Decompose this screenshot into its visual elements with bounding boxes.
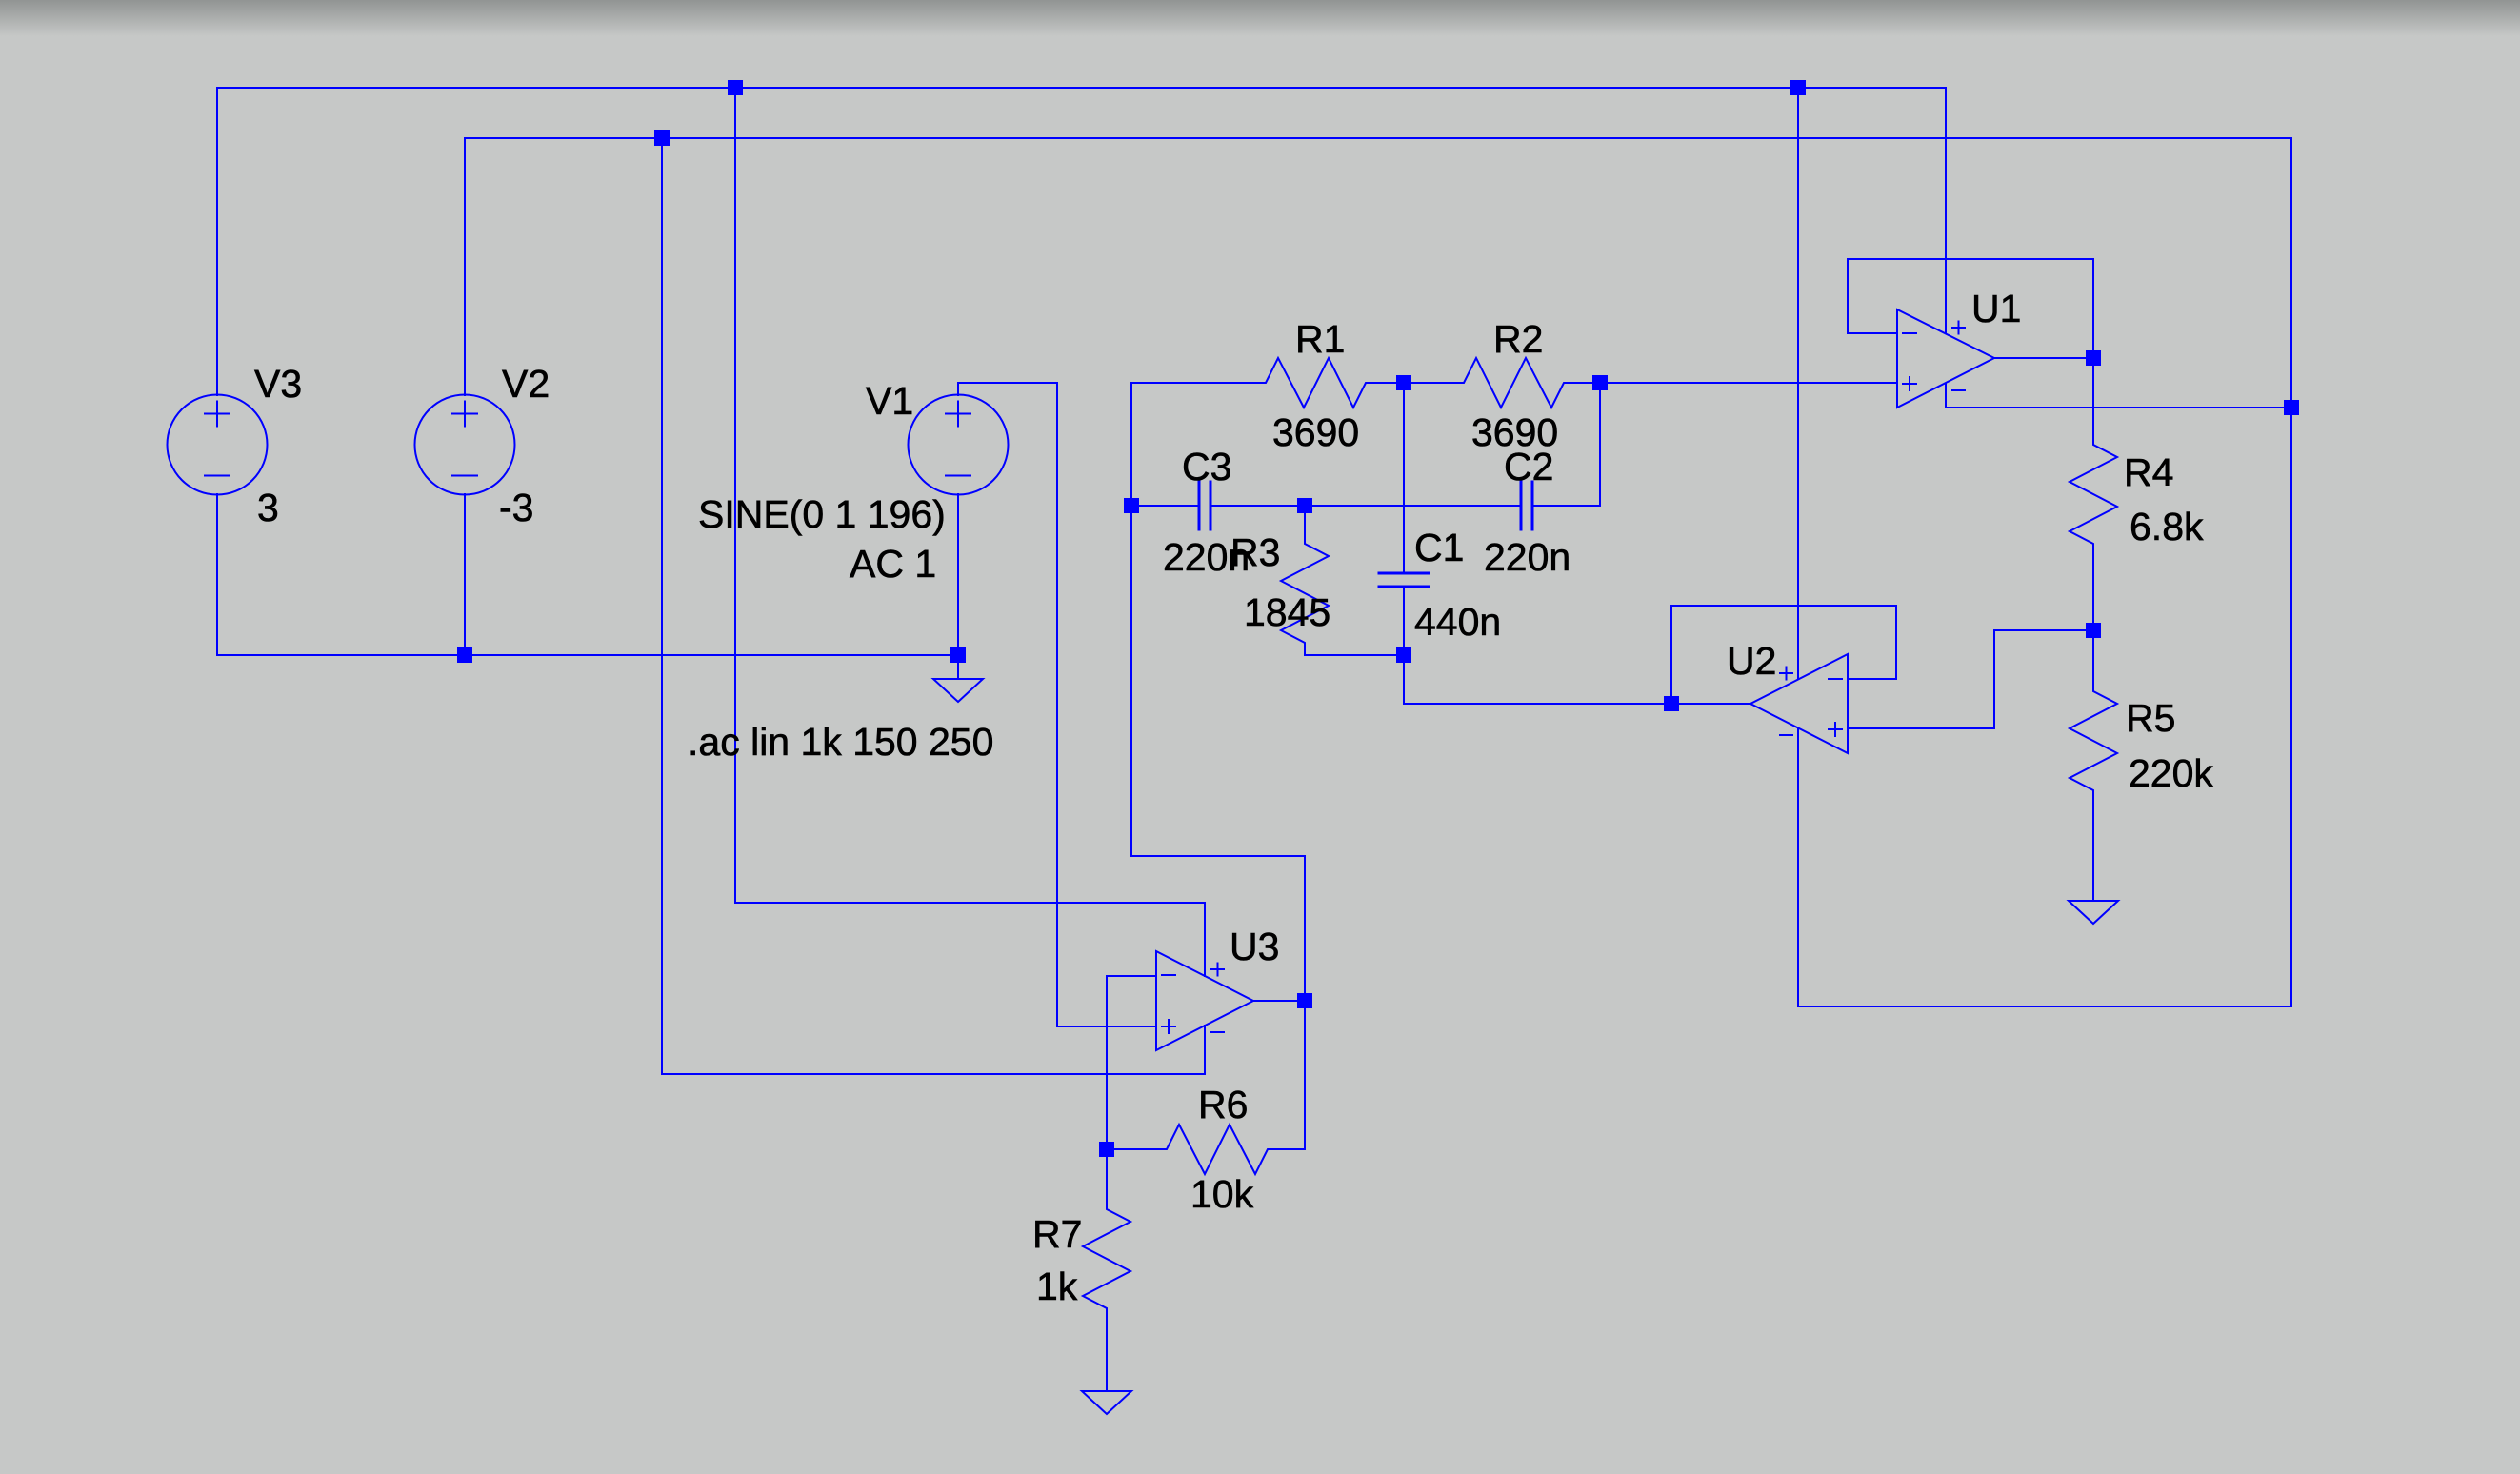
resistor R7 1k vertical xyxy=(1083,1149,1130,1391)
svg-text:C3: C3 xyxy=(1182,445,1231,488)
wire U2 +3V supply pin from top rail xyxy=(1797,88,1799,679)
ground under V1 xyxy=(933,679,983,702)
V3 minus mark xyxy=(205,475,230,477)
U3 input minus mark xyxy=(1162,974,1175,976)
wire bottom rail: V3 bottom to V1 bottom xyxy=(217,494,958,655)
wire V1 output: top stub, right, long vertical, to U3 + input xyxy=(958,383,1156,1026)
svg-text:R4: R4 xyxy=(2124,450,2173,494)
svg-text:U3: U3 xyxy=(1230,925,1279,968)
svg-text:U2: U2 xyxy=(1727,639,1776,683)
resistor R3 1845 vertical xyxy=(1281,506,1329,655)
wire R2 right to U1 + input xyxy=(1600,382,1897,384)
svg-text:SINE(0 1 196): SINE(0 1 196) xyxy=(698,492,946,536)
node junction right vertical at U1 supply xyxy=(2284,400,2299,415)
node junction bottom rail at V1/ground xyxy=(950,647,966,663)
ground under R7 xyxy=(1082,1391,1131,1414)
resistor R1 3690 horizontal xyxy=(1131,358,1404,408)
wire U3 -3V supply from second rail xyxy=(662,138,1205,1074)
node junction R2 right xyxy=(1592,375,1608,390)
node junction C1 bottom xyxy=(1396,647,1411,663)
svg-text:220n: 220n xyxy=(1484,535,1570,579)
wire U2 output stub xyxy=(1671,703,1750,705)
wire U3 inverting input down to R6/R7 node xyxy=(1107,976,1156,1149)
op-amp U3 triangle xyxy=(1156,951,1253,1050)
U3 supply minus mark xyxy=(1211,1031,1224,1033)
U2 supply plus mark xyxy=(1780,667,1792,680)
svg-text:6.8k: 6.8k xyxy=(2130,505,2204,548)
wire C1 node down and right to U2 output node xyxy=(1404,655,1671,704)
svg-text:U1: U1 xyxy=(1971,287,2021,330)
wire V1 bottom lead to ground xyxy=(957,494,959,679)
node junction U2 output xyxy=(1664,696,1679,711)
wire U2 + input to R4/R5 node xyxy=(1848,630,2093,728)
node junction U3 output xyxy=(1297,993,1312,1008)
V3 plus mark xyxy=(205,402,230,427)
U1 supply plus mark xyxy=(1952,322,1965,334)
svg-text:V1: V1 xyxy=(866,379,913,423)
node junction on second rail at U3 supply xyxy=(654,130,670,146)
node junction on top rail at U2 supply xyxy=(1790,80,1806,95)
U1 input minus mark xyxy=(1903,332,1916,334)
svg-text:1k: 1k xyxy=(1036,1265,1078,1308)
svg-text:R1: R1 xyxy=(1295,317,1345,361)
wire R3 bottom to C1 bottom node xyxy=(1305,654,1404,656)
U1 input plus mark xyxy=(1903,377,1916,390)
op-amp U2 triangle (mirrored, output left) xyxy=(1750,654,1848,753)
svg-text:R2: R2 xyxy=(1493,317,1543,361)
wire R2 node down to C2 right plate xyxy=(1532,383,1600,506)
capacitor C2 220n plates xyxy=(1521,482,1532,529)
ground under R5 xyxy=(2069,901,2118,924)
U2 input plus mark xyxy=(1829,723,1842,736)
resistor R4 6.8k vertical xyxy=(2070,358,2117,630)
wire U1 feedback: - input to output node xyxy=(1848,259,2093,358)
wire R1/R2 node down to C1 top plate xyxy=(1403,383,1405,573)
wire U2 bottom supply stub xyxy=(1797,728,1799,1006)
top gradient bar xyxy=(0,0,2520,36)
svg-text:R3: R3 xyxy=(1230,530,1280,574)
V2 plus mark xyxy=(452,402,477,427)
wire C2 left plate to C3 right plate xyxy=(1210,505,1521,507)
V2 minus mark xyxy=(452,475,477,477)
wire -3V rail: V2 top stub, second rail, right vertical, bottom run, U2 bottom supply pin xyxy=(465,138,2291,1006)
node junction R1-R2 xyxy=(1396,375,1411,390)
U2 input minus mark xyxy=(1829,678,1842,680)
node junction R4-R5 xyxy=(2086,623,2101,638)
resistor R6 10k horizontal xyxy=(1107,1125,1305,1174)
svg-text:AC 1: AC 1 xyxy=(850,542,936,586)
wire +3V rail: V3 top stub, top rail, U1 top supply pin xyxy=(217,88,1946,395)
V1 plus mark xyxy=(946,402,970,427)
resistor R5 220k vertical xyxy=(2070,630,2117,901)
V1 minus mark xyxy=(946,475,970,477)
wire C3 left lead to rail xyxy=(1131,505,1199,507)
voltage source V2 circle xyxy=(415,395,515,495)
svg-text:R7: R7 xyxy=(1032,1212,1082,1256)
resistor R2 3690 horizontal xyxy=(1404,358,1600,408)
wire U1 output stub xyxy=(1994,357,2093,359)
wire U2 feedback loop to inverting input xyxy=(1671,606,1896,704)
svg-text:V2: V2 xyxy=(502,362,550,406)
svg-text:V3: V3 xyxy=(254,362,302,406)
wire U3 +3V supply from top rail xyxy=(735,88,1205,976)
svg-text:R5: R5 xyxy=(2126,696,2175,740)
svg-text:C2: C2 xyxy=(1504,445,1553,488)
node junction on top rail at U3 supply xyxy=(728,80,743,95)
U3 supply plus mark xyxy=(1211,964,1224,976)
wire C1 bottom lead xyxy=(1403,587,1405,655)
wire U1 bottom supply to -3V vertical xyxy=(1946,384,2291,408)
capacitor C3 220n plates xyxy=(1199,482,1210,529)
svg-text:-3: -3 xyxy=(499,486,533,529)
svg-text:C1: C1 xyxy=(1414,526,1464,569)
wire U3 output net: up to R1/C3 left rail xyxy=(1131,383,1305,1149)
node junction C3 left xyxy=(1124,498,1139,513)
svg-text:440n: 440n xyxy=(1414,600,1501,644)
svg-text:R6: R6 xyxy=(1198,1083,1248,1126)
svg-text:220k: 220k xyxy=(2129,751,2213,795)
svg-text:.ac lin 1k 150 250: .ac lin 1k 150 250 xyxy=(688,720,993,764)
capacitor C1 440n plates xyxy=(1379,573,1429,587)
svg-text:3: 3 xyxy=(257,486,279,529)
node junction C3-R3 xyxy=(1297,498,1312,513)
node junction bottom rail at V2 xyxy=(457,647,472,663)
U2 supply minus mark xyxy=(1780,734,1792,736)
svg-text:1845: 1845 xyxy=(1244,590,1330,634)
wire V2 bottom lead xyxy=(464,494,466,655)
node junction U1 output xyxy=(2086,350,2101,366)
svg-text:3690: 3690 xyxy=(1272,410,1359,454)
op-amp U1 triangle xyxy=(1897,309,1994,408)
voltage source V1 circle xyxy=(909,395,1009,495)
voltage source V3 circle xyxy=(168,395,268,495)
node junction R6-R7-U3 inverting xyxy=(1099,1142,1114,1157)
svg-text:10k: 10k xyxy=(1190,1172,1254,1216)
U1 supply minus mark xyxy=(1952,389,1965,391)
U3 input plus mark xyxy=(1162,1020,1175,1033)
wire U3 output stub xyxy=(1253,1000,1305,1002)
